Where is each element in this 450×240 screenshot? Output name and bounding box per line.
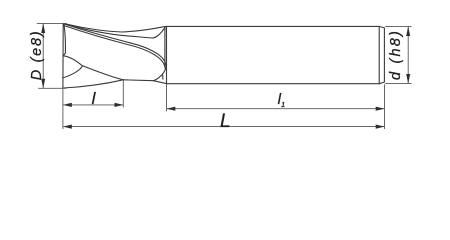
svg-text:L: L xyxy=(220,111,231,132)
svg-text:D (e8): D (e8) xyxy=(29,30,45,81)
svg-text:d (h8): d (h8) xyxy=(388,29,404,80)
svg-text:l1: l1 xyxy=(278,91,286,109)
